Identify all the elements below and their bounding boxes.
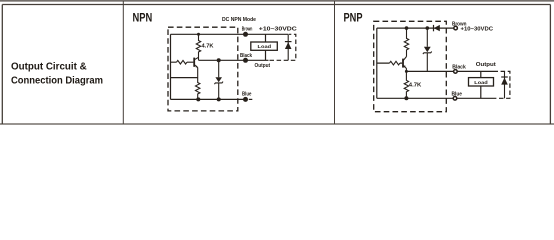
svg-text:Output: Output: [476, 62, 496, 68]
row title text: [11, 62, 103, 87]
svg-text:Black: Black: [452, 64, 466, 70]
minus mark at Blue (NPN): [249, 98, 253, 100]
svg-text:NPN: NPN: [133, 10, 153, 24]
table left border: [1, 5, 3, 125]
junction bottom/ZD1 (NPN): [217, 97, 221, 101]
sensor enclosure dashed box (PNP): [374, 21, 447, 111]
terminal Blue (NPN): [243, 97, 248, 102]
resistor R5 base (PNP): [390, 61, 400, 65]
resistor R1 4.7K collector pull (NPN): [196, 34, 200, 60]
junction bottom/R3 (NPN): [196, 97, 200, 101]
junction rail/ZD2 (PNP): [426, 26, 430, 30]
wire emitter to output node (PNP): [405, 68, 407, 71]
table top border: [2, 4, 550, 6]
junction output/emitter (PNP): [405, 70, 408, 73]
terminal Black ring (PNP): [454, 70, 458, 74]
svg-text:Output Circuit &: Output Circuit &: [11, 62, 87, 73]
top rule: [0, 0, 554, 2]
diode D3 flyback (PNP): [501, 71, 508, 98]
junction rail/R4 (PNP): [405, 26, 409, 30]
sensor enclosure dashed box (NPN): [168, 27, 238, 111]
svg-text:Connection Diagram: Connection Diagram: [11, 76, 103, 87]
svg-text:Load: Load: [474, 80, 488, 85]
table right border: [549, 5, 551, 125]
zener diode ZD2 (PNP): [423, 28, 432, 71]
wire 0V bottom line (NPN): [171, 98, 246, 100]
column divider 2: [334, 1, 336, 124]
terminal Blue ring (PNP): [453, 97, 457, 101]
wire +V top rail (NPN): [171, 33, 289, 35]
diode D2 reverse protection on rail (PNP): [434, 25, 440, 31]
terminal Brown ring (PNP): [454, 26, 458, 30]
resistor R6 4.7K (PNP): [404, 71, 408, 98]
load LD1 (NPN): [251, 34, 277, 60]
svg-text:Blue: Blue: [452, 92, 463, 98]
svg-text:4.7K: 4.7K: [202, 43, 214, 49]
svg-text:4.7K: 4.7K: [409, 83, 422, 89]
dashed optional wiring corner (PNP): [494, 71, 510, 98]
transistor Q1 NPN: [194, 57, 198, 67]
wire output line (NPN): [199, 59, 269, 61]
resistor R3 emitter (NPN): [196, 68, 200, 100]
wire left vertical bus (PNP): [376, 28, 378, 98]
svg-text:Load: Load: [258, 44, 272, 49]
resistor R4 collector (PNP): [404, 28, 408, 56]
terminal Brown (NPN): [243, 32, 248, 37]
terminal Black (NPN): [243, 58, 248, 63]
column divider 1: [122, 1, 124, 124]
svg-text:Black: Black: [240, 53, 252, 59]
zener diode ZD1 (NPN): [214, 60, 223, 99]
junction rail/R1 (NPN): [197, 33, 200, 36]
svg-text:PNP: PNP: [344, 10, 363, 24]
wire base segments (NPN): [171, 61, 194, 63]
dashed optional wiring corner (NPN): [270, 34, 296, 60]
wire mid tie line (NPN): [171, 77, 198, 79]
svg-text:+10~30VDC: +10~30VDC: [461, 27, 494, 33]
svg-text:DC NPN Mode: DC NPN Mode: [222, 17, 256, 23]
wire 0V bottom line (PNP): [377, 97, 494, 99]
resistor R2 base (NPN): [177, 60, 187, 64]
bottom rule: [0, 123, 554, 125]
transistor Q2 PNP: [403, 57, 407, 69]
load LD2 (PNP): [469, 71, 494, 98]
junction bottom/R6 (PNP): [404, 96, 408, 100]
wire +V top rail (PNP): [377, 27, 454, 29]
junction output/ZD1 (NPN): [217, 58, 221, 62]
diode D1 flyback (NPN): [285, 34, 292, 60]
wire output line (PNP): [407, 70, 494, 72]
svg-text:Blue: Blue: [242, 92, 252, 98]
svg-text:+10~30VDC: +10~30VDC: [259, 27, 298, 33]
svg-text:Brown: Brown: [242, 27, 253, 33]
wire left vertical bus (NPN): [170, 34, 172, 99]
svg-text:Output: Output: [255, 63, 271, 69]
wire base segments (PNP): [377, 62, 402, 64]
